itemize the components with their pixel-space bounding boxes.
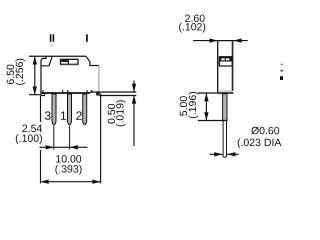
svg-text:(.393): (.393) bbox=[55, 163, 82, 175]
svg-text:1: 1 bbox=[60, 109, 67, 123]
svg-text:(.100): (.100) bbox=[15, 133, 42, 145]
svg-text:(.019): (.019) bbox=[115, 100, 127, 127]
svg-text:(.102): (.102) bbox=[178, 21, 205, 33]
svg-text:(.196): (.196) bbox=[187, 91, 199, 118]
svg-text:Ø0.60: Ø0.60 bbox=[251, 125, 280, 137]
svg-text:2: 2 bbox=[76, 109, 83, 123]
svg-text:(.256): (.256) bbox=[14, 58, 26, 85]
svg-text:3: 3 bbox=[45, 109, 52, 123]
svg-text:(.023 DIA: (.023 DIA bbox=[237, 137, 281, 149]
